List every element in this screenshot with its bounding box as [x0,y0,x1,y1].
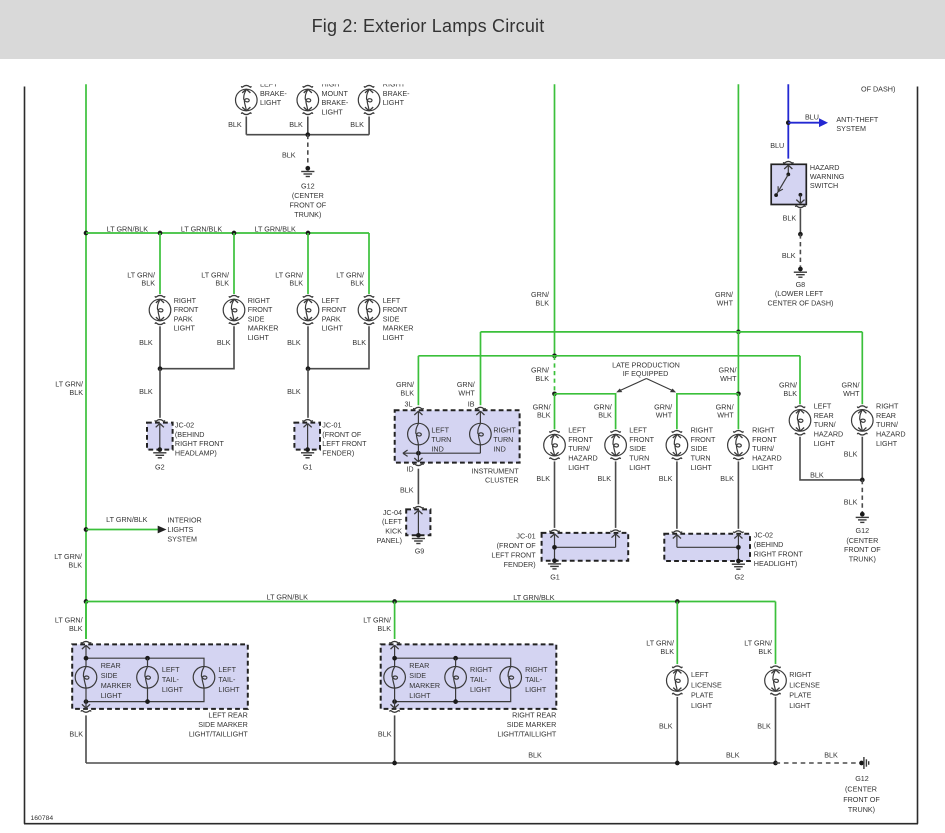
svg-text:WHT: WHT [843,389,860,398]
svg-text:LT GRN/BLK: LT GRN/BLK [181,224,222,233]
svg-text:LIGHT: LIGHT [752,463,774,472]
svg-text:BLK: BLK [535,374,549,383]
svg-text:LT GRN/BLK: LT GRN/BLK [106,515,147,524]
svg-text:LIGHT: LIGHT [629,463,651,472]
wire GRN/BLK drop to left front turn/hazard [554,394,556,430]
svg-text:(FRONT OF: (FRONT OF [322,430,362,439]
svg-text:LEFT: LEFT [162,665,180,674]
svg-text:BLK: BLK [535,298,549,307]
pin rear box exit connector arc [81,711,91,713]
svg-text:BLK: BLK [824,751,838,760]
wire GRN/WHT drop to right rear turn/hazard [861,332,863,404]
wire GRN/WHT long vertical [737,84,739,332]
svg-text:RIGHT: RIGHT [876,402,899,411]
svg-text:LICENSE: LICENSE [789,680,820,689]
svg-text:HAZARD: HAZARD [810,163,840,172]
wire BLK hazard switch to junction [799,209,801,235]
junction GRN/WHT at turn bus [736,330,741,335]
wire inside JC-02 [156,424,164,428]
svg-text:CENTER OF DASH): CENTER OF DASH) [768,299,834,308]
svg-text:BLK: BLK [69,388,83,397]
svg-text:LIGHT: LIGHT [174,324,196,333]
svg-text:SWITCH: SWITCH [810,181,838,190]
svg-text:REAR: REAR [101,661,121,670]
svg-text:160784: 160784 [31,815,54,822]
svg-text:BLK: BLK [139,387,153,396]
svg-text:KICK: KICK [385,527,402,536]
svg-text:RIGHT: RIGHT [248,296,271,305]
svg-text:WHT: WHT [458,388,475,397]
svg-text:REAR: REAR [876,411,896,420]
svg-text:RIGHT: RIGHT [752,426,775,435]
svg-text:G12: G12 [301,182,315,191]
svg-text:LEFT: LEFT [814,402,832,411]
wire GRN/BLK dashed drop (late production) [554,356,556,394]
wire blue main vertical (to hazard switch) [787,84,789,159]
svg-text:LEFT: LEFT [383,296,401,305]
junction blue wire / anti-theft tap [786,120,791,125]
svg-text:BLK: BLK [282,150,296,159]
svg-text:TURN: TURN [493,435,513,444]
lamp RIGHT BRAKE- LIGHT (brake light) [358,89,380,111]
ground G2 [157,447,162,452]
svg-text:BLK: BLK [352,338,366,347]
ground G9 [416,533,421,538]
svg-text:BLK: BLK [289,279,303,288]
junction GRN/BLK at turn bus [552,353,557,358]
svg-text:(LEFT: (LEFT [382,517,403,526]
svg-text:LEFT: LEFT [322,296,340,305]
svg-text:LIGHT: LIGHT [814,439,836,448]
svg-text:RIGHT REAR: RIGHT REAR [512,711,556,720]
svg-text:FENDER): FENDER) [504,560,536,569]
junction ground bus at x=394.6 [392,761,397,766]
svg-text:TAIL-: TAIL- [525,675,543,684]
svg-text:BLK: BLK [720,474,734,483]
wire inside JC-01 [304,424,312,428]
wire GRN/WHT drop to IB pin [480,332,482,405]
svg-text:BLK: BLK [659,474,673,483]
junction right front park/marker BLK join [158,366,163,371]
svg-text:LIGHT/TAILLIGHT: LIGHT/TAILLIGHT [189,729,249,738]
svg-text:BLK: BLK [350,279,364,288]
lamp LEFT BRAKE- LIGHT (brake light) [236,89,258,111]
svg-text:RIGHT: RIGHT [174,296,197,305]
svg-text:LEFT: LEFT [629,426,647,435]
svg-text:WHT: WHT [717,298,734,307]
svg-text:BLK: BLK [844,449,858,458]
wire GRN/BLK drop to 3L pin [417,356,419,405]
junction rear turn BLK join [860,478,865,483]
svg-text:LIGHT: LIGHT [691,463,713,472]
svg-text:(CENTER: (CENTER [292,191,324,200]
svg-text:JC-02: JC-02 [754,531,773,540]
lamp RIGHT TAIL-LIGHT (inner) [445,667,467,689]
wire LT GRN/BLK to interior lights system with arrow [86,529,158,531]
svg-text:LT GRN/BLK: LT GRN/BLK [267,593,308,602]
wire rear box entry arrow [82,645,90,649]
wire BLK dashed to ground G12 (top) [307,135,309,167]
svg-text:LIGHT: LIGHT [876,439,898,448]
svg-text:BLK: BLK [139,338,153,347]
svg-text:RIGHT FRONT: RIGHT FRONT [754,549,804,558]
svg-text:LIGHT: LIGHT [260,98,282,107]
svg-text:SIDE: SIDE [248,314,265,323]
svg-text:LT GRN/BLK: LT GRN/BLK [513,593,554,602]
svg-text:BLK: BLK [726,751,740,760]
svg-text:BLK: BLK [783,389,797,398]
svg-text:FRONT OF: FRONT OF [844,545,881,554]
wire BLK front turn lamp x=615.6 to junction connector [615,461,617,528]
svg-text:MARKER: MARKER [101,681,132,690]
wire GRN/BLK long vertical [554,84,556,356]
wire BLK front turn lamp x=554.5 to junction connector [554,461,556,528]
wire GRN/WHT drop to right front turn/hazard [737,394,739,430]
svg-text:TURN/: TURN/ [568,444,590,453]
svg-text:INTERIOR: INTERIOR [167,516,201,525]
svg-text:LIGHT: LIGHT [568,463,590,472]
svg-text:3L: 3L [405,399,413,408]
svg-text:LIGHT: LIGHT [162,685,184,694]
lamp REAR SIDE MARKER LIGHT [75,667,97,689]
svg-text:LIGHT: LIGHT [409,691,431,700]
svg-text:LEFT: LEFT [691,670,709,679]
lamp LEFT REAR TURN/HAZARD LIGHT [789,410,811,432]
junction inside JC-02 [736,545,741,550]
junction taillight bus at x=394.6 [392,599,397,604]
svg-text:BLK: BLK [659,722,673,731]
svg-text:MARKER: MARKER [248,324,279,333]
svg-text:REAR: REAR [814,411,834,420]
svg-text:MOUNT: MOUNT [322,89,349,98]
svg-text:BRAKE-: BRAKE- [322,98,349,107]
svg-text:RIGHT: RIGHT [383,80,406,89]
svg-text:LEFT FRONT: LEFT FRONT [491,550,536,559]
pin hazard switch output terminal [799,193,803,197]
junction GRN/WHT at front turn feed [736,391,741,396]
module instrument cluster box [395,410,520,462]
svg-text:ANTI-THEFT: ANTI-THEFT [836,115,879,124]
ground G1 [305,447,310,452]
wire rear box bottom internal bus [395,688,511,702]
junction left front park/marker BLK join [306,366,311,371]
ground G12 right (center front of trunk) [860,512,865,517]
svg-text:G1: G1 [550,573,560,582]
lamp LEFT FRONT SIDE MARKER LIGHT [358,299,380,321]
ground G12 bottom (center front of trunk) [859,761,864,766]
svg-text:BLK: BLK [660,647,674,656]
wire BLK dashed to ground G8 [799,234,801,267]
svg-text:(CENTER: (CENTER [845,784,877,793]
svg-text:SIDE: SIDE [691,444,708,453]
pin JC-04 connector arc [414,506,424,508]
junction hazard ground wire [798,232,803,237]
module RIGHT REAR SIDE MARKER LIGHT/TAILLIGHT box [381,644,557,709]
svg-text:SIDE: SIDE [409,671,426,680]
svg-text:MARKER: MARKER [409,681,440,690]
svg-text:TURN/: TURN/ [876,420,898,429]
svg-text:BLK: BLK [400,388,414,397]
switch contact arm and terminals [784,165,792,169]
junction GRN/BLK at front turn feed [552,391,557,396]
wire LT GRN/BLK drop to RIGHT FRONT PARK LIGHT [159,233,161,294]
svg-text:FRONT: FRONT [174,305,199,314]
junction connector JC-02 box (behind right front headlight) [664,534,750,561]
svg-text:SIDE MARKER: SIDE MARKER [198,720,248,729]
svg-text:G2: G2 [155,462,165,471]
wire BLK left front park light down [307,326,309,368]
svg-text:JC-02: JC-02 [175,421,194,430]
svg-text:LIGHTS: LIGHTS [167,525,193,534]
callout arrows late production [620,379,673,391]
svg-text:JC-01: JC-01 [322,421,341,430]
junction ground bus at x=775.5 [773,761,778,766]
pin JC-02 connector arc [155,420,165,422]
svg-text:TRUNK): TRUNK) [849,555,876,564]
svg-text:FRONT: FRONT [752,435,777,444]
junction left vertical at park light bus [84,231,89,236]
ground G1 (wide) [552,558,557,563]
svg-text:HIGH: HIGH [322,80,340,89]
svg-text:SIDE: SIDE [629,444,646,453]
svg-text:LT GRN/BLK: LT GRN/BLK [255,224,296,233]
svg-text:TAIL-: TAIL- [162,675,180,684]
wire rear box top internal bus [86,658,204,666]
svg-text:LIGHT: LIGHT [322,324,344,333]
wire BLK right rear turn down [861,437,863,480]
svg-text:TURN: TURN [691,454,711,463]
svg-text:ID: ID [406,465,413,474]
svg-text:IF EQUIPPED: IF EQUIPPED [623,369,669,378]
lamp LEFT FRONT TURN/ HAZARD LIGHT [544,434,566,456]
svg-text:BLK: BLK [598,411,612,420]
svg-text:FRONT: FRONT [568,435,593,444]
pin ID connector arc [414,464,424,466]
svg-text:HAZARD: HAZARD [814,430,844,439]
wires inside JC-02 [673,535,681,539]
lamp LEFT TAIL-LIGHT (outer) [193,667,215,689]
wire BLK left rear box to ground bus [85,715,87,763]
pin JC-01 connector arcs [550,530,560,532]
switch U1 hazard warning switch box [771,164,806,204]
svg-text:TRUNK): TRUNK) [294,210,321,219]
lamp HIGH MOUNT BRAKE- LIGHT (brake light) [297,89,319,111]
svg-text:WHT: WHT [656,411,673,420]
svg-text:(CENTER: (CENTER [846,536,878,545]
wire rear box lamp2 to buses [455,658,457,666]
svg-text:HAZARD: HAZARD [876,430,906,439]
junction cluster internal [416,451,421,456]
svg-text:LICENSE: LICENSE [691,680,722,689]
svg-text:FRONT: FRONT [691,435,716,444]
svg-text:(BEHIND: (BEHIND [754,540,784,549]
svg-text:TURN: TURN [431,435,451,444]
svg-text:BLK: BLK [378,729,392,738]
lamp LEFT FRONT PARK LIGHT [297,299,319,321]
ground G2 (wide) [736,559,741,564]
wire rear box entry arrow [391,645,399,649]
svg-text:SIDE MARKER: SIDE MARKER [507,720,557,729]
svg-text:BLK: BLK [400,486,414,495]
svg-text:FRONT: FRONT [322,305,347,314]
wire IB entry arrow [476,411,484,415]
lamp LEFT LICENSE PLATE LIGHT [667,670,689,692]
svg-text:BLK: BLK [782,251,796,260]
junction connector JC-04 box [406,509,430,535]
junction left vertical at taillight bus [84,599,89,604]
svg-text:(FRONT OF: (FRONT OF [497,541,537,550]
svg-text:RIGHT: RIGHT [470,665,493,674]
svg-text:WARNING: WARNING [810,172,845,181]
svg-text:BLK: BLK [141,279,155,288]
svg-text:FENDER): FENDER) [322,448,354,457]
lamp RIGHT FRONT TURN/ HAZARD LIGHT [728,434,750,456]
svg-text:LIGHT: LIGHT [383,98,405,107]
svg-text:BLK: BLK [844,497,858,506]
wire GRN/WHT turn/hazard bus (upper) [481,331,863,333]
wire BLK high mount brake light down [307,117,309,135]
svg-text:LIGHT: LIGHT [101,691,123,700]
svg-text:RIGHT: RIGHT [691,426,714,435]
svg-text:REAR: REAR [409,661,429,670]
svg-text:LIGHT: LIGHT [525,685,547,694]
wire LT GRN/BLK drop to RIGHT FRONT SIDE MARKER LIGHT [233,233,235,294]
wire BLK dashed ground bus to G12 [776,762,857,764]
svg-text:HAZARD: HAZARD [568,454,598,463]
junction park bus at x=308 [306,231,311,236]
svg-text:LEFT FRONT: LEFT FRONT [322,439,367,448]
lamp RIGHT TAIL-LIGHT (outer) [500,667,522,689]
wire rear box exit arrow [85,688,87,709]
pin rear box entry connector arc [390,641,400,643]
junction rear box top bus [84,656,89,661]
svg-text:BLK: BLK [69,729,83,738]
svg-text:LEFT: LEFT [568,426,586,435]
svg-text:FRONT OF: FRONT OF [843,795,880,804]
lamp RIGHT REAR TURN/HAZARD LIGHT [852,410,874,432]
pin hazard switch output connector arc [796,206,806,208]
wire BLK bottom ground bus [86,762,776,764]
svg-text:LEFT: LEFT [431,426,449,435]
svg-text:G1: G1 [303,462,313,471]
wire BLK right license lamp down [775,697,777,763]
svg-text:TURN: TURN [629,454,649,463]
title Fig 2: Exterior Lamps Circuit [0,16,856,37]
svg-text:RIGHT: RIGHT [789,670,812,679]
svg-text:FRONT: FRONT [383,305,408,314]
svg-text:TAIL-: TAIL- [218,675,236,684]
wire BLK dashed to ground G12 (right) [861,480,863,512]
wire BLK left license lamp down [676,697,678,763]
wire LT GRN/BLK taillight bus [86,601,776,603]
svg-text:FRONT: FRONT [248,305,273,314]
svg-text:LIGHT: LIGHT [248,333,270,342]
svg-text:BLU: BLU [770,141,784,150]
wire BLK to junction connector JC-02 [159,369,161,418]
wire rear box bottom internal bus [86,688,204,702]
pin hazard switch input connector arc [783,161,793,163]
svg-text:G12: G12 [856,526,870,535]
pin JC-02 connector arcs [672,531,682,533]
svg-text:HEADLAMP): HEADLAMP) [175,448,217,457]
wire 3L entry arrow [414,411,422,415]
wire BLK right front side marker down and over [160,326,234,368]
lamp LEFT TAIL-LIGHT (inner) [137,667,159,689]
svg-text:BLK: BLK [69,624,83,633]
svg-text:INSTRUMENT: INSTRUMENT [471,467,519,476]
svg-text:JC-01: JC-01 [516,532,535,541]
svg-text:TRUNK): TRUNK) [848,805,875,814]
junction taillight bus at x=677.3 [675,599,680,604]
svg-text:PANEL): PANEL) [377,536,402,545]
wire BLK ID to JC-04 [417,469,419,505]
svg-text:BLK: BLK [68,561,82,570]
lamp RIGHT FRONT PARK LIGHT [149,299,171,321]
svg-text:BLK: BLK [758,647,772,656]
wire BLK front turn lamp x=738.4 to junction connector [737,461,739,528]
svg-text:FRONT: FRONT [629,435,654,444]
svg-text:BRAKE-: BRAKE- [260,89,287,98]
svg-text:PLATE: PLATE [789,691,811,700]
svg-text:HAZARD: HAZARD [752,454,782,463]
svg-text:PLATE: PLATE [691,691,713,700]
lamp U2 left turn indicator [408,423,430,445]
wire GRN/BLK turn/hazard bus (lower) [418,355,800,357]
svg-text:BLK: BLK [377,624,391,633]
svg-text:(LOWER LEFT: (LOWER LEFT [775,289,824,298]
wire brake lights ground bus [246,134,369,136]
pin IB connector arc [476,407,486,409]
svg-text:BLK: BLK [536,474,550,483]
header bar [0,0,945,59]
wire inside JC-04 [414,510,422,514]
svg-text:RIGHT: RIGHT [525,665,548,674]
svg-text:G8: G8 [796,280,806,289]
wire GRN/BLK drop to left rear turn/hazard [799,356,801,405]
svg-text:TURN/: TURN/ [814,420,836,429]
junction ground bus at x=677.3 [675,761,680,766]
svg-text:MARKER: MARKER [383,324,414,333]
junction park bus at x=234 [232,231,237,236]
svg-text:LT GRN/BLK: LT GRN/BLK [107,224,148,233]
wire BLK right rear box to ground bus [394,715,396,763]
svg-text:LIGHT/TAILLIGHT: LIGHT/TAILLIGHT [497,729,557,738]
wire GRN/WHT continues to front turn feed [737,332,739,394]
svg-text:WHT: WHT [720,374,737,383]
svg-text:G2: G2 [735,572,745,581]
svg-text:LIGHT: LIGHT [218,685,240,694]
wire BLK right brake light down [368,117,370,135]
svg-text:LEFT: LEFT [218,665,236,674]
wire BLK left rear turn down and over [800,437,862,480]
svg-text:OF DASH): OF DASH) [861,85,895,94]
wires inside JC-01 [550,534,558,538]
svg-text:BLK: BLK [598,474,612,483]
svg-text:BRAKE-: BRAKE- [383,89,410,98]
svg-text:CLUSTER: CLUSTER [485,475,519,484]
svg-text:PARK: PARK [322,314,341,323]
junction connector JC-01 box (front of left front fender) [542,533,629,561]
svg-text:TURN/: TURN/ [752,444,774,453]
svg-text:TAIL-: TAIL- [470,675,488,684]
junction brake ground bus [305,132,310,137]
wire LT GRN/BLK drop to left license lamp [676,602,678,665]
svg-text:BLK: BLK [537,411,551,420]
wire LT GRN/BLK drop to right license lamp [775,602,777,665]
svg-text:IND: IND [431,444,443,453]
pin rear box entry connector arc [81,641,91,643]
svg-text:BLK: BLK [783,214,797,223]
